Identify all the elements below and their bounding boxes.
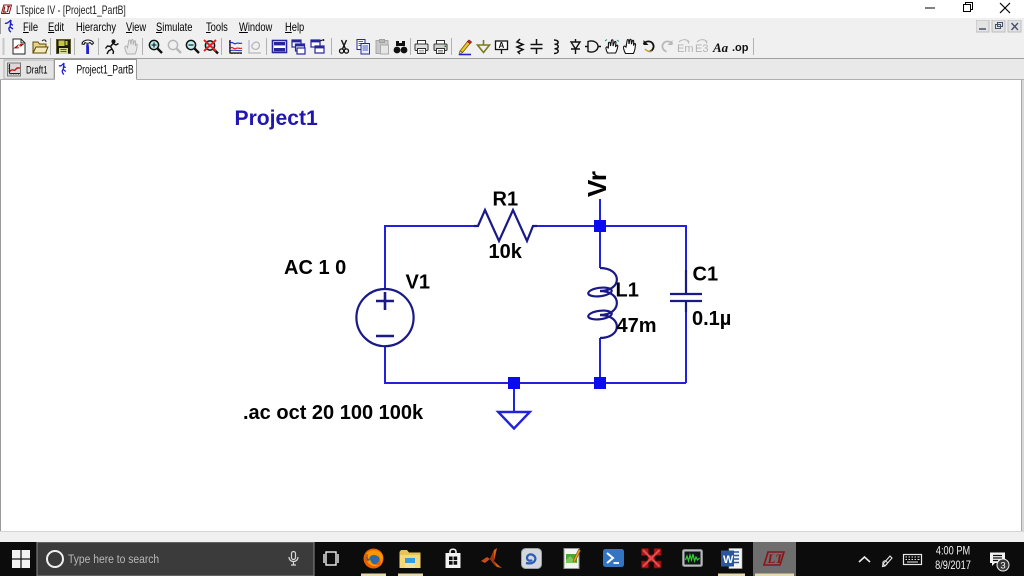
icon: ground xyxy=(478,40,490,53)
tray keyboard xyxy=(904,555,922,565)
title bar xyxy=(0,0,1024,18)
icon: waveform color xyxy=(229,40,242,54)
separators xyxy=(51,38,754,55)
icon: E3 grey xyxy=(695,40,708,55)
tray caret xyxy=(859,557,870,562)
toolbar xyxy=(0,34,1024,60)
icon: zoom out xyxy=(186,40,199,53)
svg-text:E3: E3 xyxy=(695,43,708,55)
svg-text:A: A xyxy=(499,41,505,50)
mdi child buttons xyxy=(976,20,1022,33)
menu bar xyxy=(0,18,1024,34)
grip xyxy=(3,38,5,55)
left window border xyxy=(0,80,1,531)
icon: new schematic xyxy=(13,39,25,54)
task view xyxy=(324,552,338,565)
window buttons xyxy=(915,0,1024,16)
icon: spice directive .op xyxy=(732,42,749,54)
word xyxy=(721,549,742,569)
taskbar xyxy=(0,542,1024,576)
wire inductor vertical xyxy=(599,226,601,383)
icon: component xyxy=(585,41,601,52)
icon: Em grey xyxy=(677,40,694,55)
svg-text:Vr: Vr xyxy=(582,171,612,197)
icon: paste grey xyxy=(376,40,389,55)
icon: waveform grey xyxy=(249,40,261,53)
wire left vertical top xyxy=(384,225,386,289)
icon: print xyxy=(434,41,447,54)
icon: move clutch xyxy=(605,40,619,54)
wire top-right horizontal xyxy=(537,225,686,227)
svg-text:L1: L1 xyxy=(616,280,639,302)
icon: cascade xyxy=(292,40,305,54)
active tab xyxy=(55,60,137,80)
svg-text:Type here to search: Type here to search xyxy=(68,553,159,566)
tab bar xyxy=(0,60,1024,80)
wire Vr stub xyxy=(599,199,601,226)
icon: save xyxy=(57,40,71,55)
svg-text:3: 3 xyxy=(1000,561,1005,572)
node square top xyxy=(594,220,606,232)
icon: diode xyxy=(571,39,580,54)
svg-text:AC 1 0: AC 1 0 xyxy=(284,257,346,279)
svg-text:W: W xyxy=(723,554,734,566)
svg-text:Draft1: Draft1 xyxy=(26,64,48,77)
resistor R1 xyxy=(474,210,537,241)
icon: undo xyxy=(644,40,654,52)
svg-text:4:00 PM: 4:00 PM xyxy=(936,546,970,558)
tray pen xyxy=(883,556,893,567)
store xyxy=(446,549,461,568)
xilinx red x xyxy=(642,549,662,569)
powershell xyxy=(603,549,624,567)
running underlines xyxy=(361,574,794,576)
icon: tile horizontal xyxy=(273,41,287,53)
icon: zoom back (grey) xyxy=(168,40,181,53)
node square bottom middle-left xyxy=(508,377,520,389)
scope app xyxy=(683,550,703,567)
silver D app xyxy=(522,549,542,569)
icon: inductor xyxy=(554,40,558,54)
svg-text:10k: 10k xyxy=(489,241,523,263)
svg-text:R1: R1 xyxy=(493,189,519,211)
icon: zoom in xyxy=(149,40,162,53)
icon: tile vertical xyxy=(311,40,324,54)
firefox xyxy=(364,549,384,569)
svg-text:8/9/2017: 8/9/2017 xyxy=(935,560,971,572)
svg-text:LT: LT xyxy=(767,551,785,566)
voltage source V1 xyxy=(356,289,413,346)
folder xyxy=(400,550,421,568)
right window border xyxy=(1021,80,1022,531)
icon: resistor xyxy=(517,39,523,54)
icon: halt hand (grey) xyxy=(125,39,137,54)
icon: run man xyxy=(106,40,119,54)
node square bottom inductor xyxy=(594,377,606,389)
ground xyxy=(513,389,515,412)
wire bottom rail xyxy=(384,382,686,384)
icon: zoom full extents xyxy=(204,40,218,54)
icon: cut xyxy=(340,40,349,53)
svg-text:Em: Em xyxy=(677,43,694,55)
start button xyxy=(12,550,30,568)
icon: capacitor xyxy=(531,39,543,54)
ltspice active button xyxy=(753,542,796,576)
svg-text:.ac oct 20 100 100k: .ac oct 20 100 100k xyxy=(243,402,424,424)
svg-text:47m: 47m xyxy=(617,315,657,337)
icon: control panel hammer xyxy=(82,40,94,54)
icon: print preview xyxy=(415,41,428,54)
svg-text:Project1: Project1 xyxy=(235,107,319,130)
icon: open xyxy=(33,40,48,53)
icon: wire pencil xyxy=(459,40,472,55)
matlab xyxy=(481,548,502,568)
status bar xyxy=(0,531,1024,543)
capacitor C1 xyxy=(670,270,702,312)
icon: net label xyxy=(496,41,508,54)
icon: find binoculars xyxy=(394,41,408,53)
icon: drag hand xyxy=(624,39,636,53)
inductor L1 xyxy=(588,268,617,338)
wire left vertical bottom xyxy=(384,347,386,384)
notifications xyxy=(990,553,1009,572)
inactive tab Draft1 xyxy=(4,60,54,79)
svg-text:C1: C1 xyxy=(693,264,719,286)
search box xyxy=(37,542,314,576)
svg-text:V1: V1 xyxy=(406,271,430,293)
wire right vertical xyxy=(685,225,687,383)
svg-text:0.1µ: 0.1µ xyxy=(692,308,731,330)
svg-text:Project1_PartB: Project1_PartB xyxy=(77,64,134,77)
svg-text:.op: .op xyxy=(732,42,749,54)
icon: text Aa xyxy=(712,40,729,55)
icon: redo grey xyxy=(662,40,672,52)
icon: copy xyxy=(357,40,370,55)
wire top-left horizontal xyxy=(385,225,474,227)
green doc app xyxy=(564,549,581,569)
svg-text:Aa: Aa xyxy=(712,40,729,55)
